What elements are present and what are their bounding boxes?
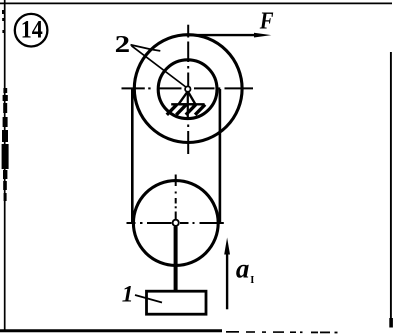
svg-text:1: 1 (122, 282, 134, 308)
pulley 2 inner circle (158, 60, 217, 119)
svg-text:I: I (250, 275, 254, 286)
frame bottom border broken dashes (226, 331, 338, 333)
frame left border scan blobs (2, 10, 9, 201)
pulley 2 outer circle (134, 35, 242, 143)
problem number badge circle 14 (15, 14, 48, 47)
load block 1 (147, 291, 207, 314)
label 1 leader line (135, 295, 162, 303)
rope to force F (186, 34, 259, 36)
movable pulley circle (133, 181, 218, 266)
svg-text:14: 14 (21, 17, 43, 44)
frame left border (4, 0, 6, 331)
frame top border (0, 2, 392, 4)
pulley 2 vertical centerline (187, 25, 189, 154)
force F arrowhead (254, 33, 271, 38)
pin support triangle (179, 91, 196, 104)
pin support hatching (167, 105, 205, 115)
label 2 leader line to outer rim (131, 45, 161, 51)
pulley 2 horizontal centerline (122, 87, 254, 89)
movable pulley vertical centerline (175, 175, 177, 220)
acceleration a1 arrowhead (224, 238, 230, 255)
rod from pulley to load (174, 227, 178, 293)
frame right border (390, 52, 392, 327)
pulley 2 hub pin (185, 86, 190, 91)
axle stub through support (187, 91, 189, 118)
left rope segment (131, 89, 134, 223)
movable pulley hub pin (173, 220, 179, 226)
right rope segment (219, 89, 222, 222)
svg-text:2: 2 (115, 32, 131, 58)
label 2 leader line to hub (132, 46, 187, 88)
movable pulley horizontal centerline (127, 222, 224, 224)
frame right border bottom blob (389, 318, 393, 328)
pin support base line (171, 103, 204, 105)
svg-text:a: a (236, 253, 250, 283)
svg-text:F: F (259, 8, 274, 34)
acceleration a1 arrow shaft (226, 251, 228, 309)
frame bottom border (0, 329, 222, 332)
